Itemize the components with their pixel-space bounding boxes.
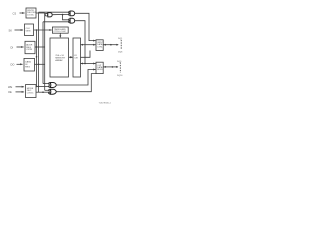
junction dot on R2 pin arrow	[112, 66, 114, 68]
svg-text:LOGIC: LOGIC	[27, 15, 34, 17]
svg-text:CTRL: CTRL	[97, 46, 103, 48]
wire: CKB output arrow down into array	[59, 33, 61, 37]
svg-text:OE: OE	[8, 90, 12, 94]
svg-text:BUFS: BUFS	[97, 69, 103, 71]
svg-text:TL/D/9345-1: TL/D/9345-1	[99, 102, 112, 104]
wire: R1 to pin double arrow	[103, 44, 118, 46]
B1 text	[27, 10, 37, 17]
B3 text	[26, 43, 33, 51]
wire: GA output riser to R2	[57, 70, 96, 86]
wire: bus3 elbow to gate G3 lower input	[43, 21, 68, 23]
block CKB (two-phase clock generator)	[52, 27, 68, 33]
pin label DQ0	[118, 38, 123, 40]
block B2 (clock register)	[25, 24, 34, 36]
svg-text:DQ9: DQ9	[117, 61, 122, 63]
gate GA (output enable NOR)	[49, 83, 57, 88]
wire: B1 output row to bus4	[36, 12, 45, 14]
wire: B5 output row 1 to gate A	[36, 85, 49, 87]
gate G3 (NAND, write control)	[68, 18, 74, 23]
wire: R2 to pin double arrow	[103, 66, 118, 68]
B5 text	[27, 88, 34, 95]
wire: bus3 vertical	[42, 22, 44, 84]
block B4 (data register)	[24, 58, 35, 71]
input arrow to B2	[15, 29, 24, 31]
svg-text:ARRAY: ARRAY	[55, 59, 63, 62]
svg-text:CS: CS	[13, 12, 17, 16]
block B1 (instruction register)	[26, 8, 36, 18]
input arrow OE to B5	[16, 91, 25, 93]
svg-text:CNTR: CNTR	[26, 49, 32, 51]
gate G2 (NAND, read control)	[68, 11, 74, 16]
junction dot on R1 pin arrow	[110, 44, 112, 46]
pin label DQ3	[118, 51, 123, 53]
svg-text:DO: DO	[11, 63, 15, 67]
pin bus DQ upper (dashed)	[120, 40, 122, 50]
pin label DQ9	[117, 61, 122, 63]
wire: G1 output row	[52, 13, 68, 15]
junction dot bus3/row92	[42, 91, 44, 93]
pin label DQ16	[117, 75, 123, 77]
wire: G2 output to riser	[75, 13, 96, 40]
wire: double arrow MAIN-COL	[69, 56, 72, 58]
wire: B2 output row to clock box	[34, 29, 52, 31]
input arrow to B1	[20, 12, 25, 14]
pin label DI	[11, 45, 14, 49]
junction dot bus1/row47	[36, 46, 38, 48]
caption text	[99, 102, 112, 104]
pin label OE	[8, 90, 12, 94]
junction dot bus1 mid	[36, 56, 38, 58]
pin label WE	[8, 85, 12, 89]
junction dot bus1/row86	[36, 86, 38, 88]
wire: bus3 elbow to GA upper input	[43, 83, 48, 85]
wire: branch down to G3 upper input	[63, 15, 69, 20]
pin label SK	[9, 28, 13, 32]
pin label A1	[13, 12, 17, 16]
junction dot bus1/row30	[36, 29, 38, 31]
block B3 (address register)	[25, 41, 35, 53]
svg-text:REG: REG	[25, 66, 30, 68]
junction dot bus2/row64	[38, 64, 40, 66]
pin bus DQ lower (dashed)	[119, 62, 121, 72]
input arrow to B3	[17, 46, 24, 48]
wire: B5 output row 2 to gate B	[36, 91, 49, 93]
svg-text:DQ1: DQ1	[118, 38, 123, 40]
wire: bus4 vertical	[44, 13, 46, 90]
wire: B3 output row	[35, 46, 45, 48]
svg-text:CIR: CIR	[74, 58, 78, 60]
block R1 (input data control)	[96, 40, 103, 51]
block R2 (output buffers)	[96, 62, 103, 73]
svg-text:GEN: GEN	[26, 30, 31, 32]
wire: bus1 vertical	[36, 30, 38, 86]
block MAIN (memory array)	[50, 38, 69, 77]
svg-text:DQ16: DQ16	[117, 75, 123, 77]
wire: COL to R1 double arrow	[81, 44, 96, 46]
R1 text	[97, 42, 104, 48]
gate G1 (clock buffer)	[45, 13, 48, 16]
junction dot riser/R2 line	[84, 63, 86, 65]
svg-text:DQ8: DQ8	[118, 51, 123, 53]
wire: GB output riser to R2 bottom corner	[57, 74, 97, 92]
B2 text	[26, 28, 31, 32]
R2 text	[97, 65, 103, 71]
COL text	[74, 55, 78, 60]
CKB text	[54, 28, 67, 33]
svg-text:SK: SK	[9, 28, 13, 32]
wire: G3 output to riser joining R2 input line	[75, 21, 85, 64]
input arrow WE to B5	[16, 86, 25, 88]
wire: B4 output row	[35, 63, 45, 65]
svg-text:WE: WE	[8, 85, 12, 89]
svg-text:CTRL LOGIC: CTRL LOGIC	[54, 31, 67, 33]
wire: bus4 elbow to GB upper input	[45, 89, 49, 91]
block B5 (mode decode logic)	[26, 85, 37, 98]
B4 text	[25, 61, 31, 69]
pin label DO	[11, 63, 15, 67]
wire: R1 bottom L-wire to COL	[81, 51, 91, 58]
svg-text:DI: DI	[11, 45, 14, 49]
MAIN text	[55, 55, 65, 62]
junction dot bus2/row86	[38, 86, 40, 88]
wire: bus2 vertical	[38, 12, 40, 92]
input arrow to B4	[17, 63, 23, 65]
wire: bus2 elbow to gate G2 upper input	[39, 11, 69, 13]
junction dot on G1 output	[62, 14, 64, 16]
block COL (column I/O circuits)	[73, 38, 81, 77]
gate GB (write enable NOR)	[49, 89, 57, 94]
svg-text:LOGIC: LOGIC	[27, 93, 34, 95]
wire: COL to R2 double arrow	[81, 63, 96, 65]
